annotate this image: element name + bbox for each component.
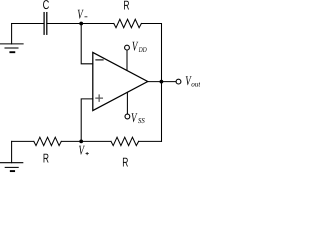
svg-text:V: V <box>131 110 138 125</box>
svg-text:DD: DD <box>138 45 147 54</box>
svg-text:V: V <box>77 6 84 21</box>
svg-text:SS: SS <box>138 116 145 125</box>
svg-text:R: R <box>122 155 128 170</box>
svg-text:V: V <box>79 142 86 157</box>
svg-text:V: V <box>132 38 139 53</box>
svg-text:R: R <box>123 0 129 13</box>
svg-text:C: C <box>43 0 50 12</box>
svg-text:out: out <box>191 79 200 88</box>
svg-text:R: R <box>43 151 49 166</box>
